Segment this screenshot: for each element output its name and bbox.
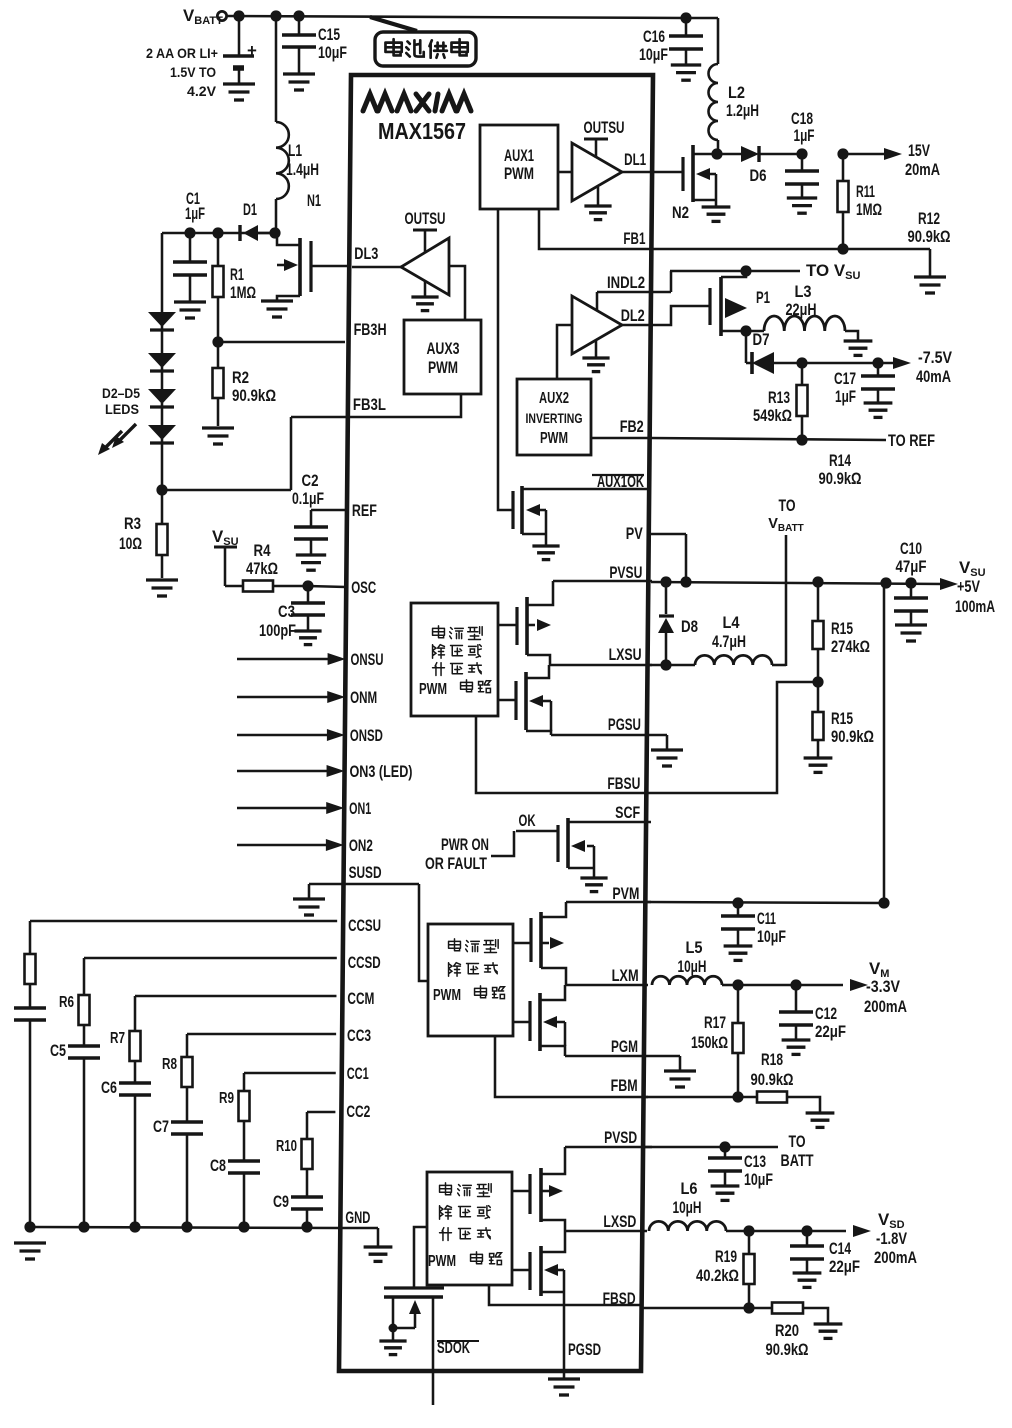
output VM -3.3V (732, 959, 907, 1016)
svg-text:10μF: 10μF (744, 1170, 773, 1189)
transistor SU high-side (498, 581, 553, 665)
svg-text:C2: C2 (302, 471, 319, 490)
svg-text:CCSD: CCSD (348, 954, 381, 972)
wire P1 to D7 (745, 331, 748, 363)
wire GND bus (30, 1227, 342, 1228)
svg-text:R2: R2 (232, 368, 249, 387)
wire PVSU internal (553, 580, 652, 583)
svg-text:L6: L6 (681, 1179, 698, 1198)
wire PV external (648, 534, 686, 582)
svg-text:274kΩ: 274kΩ (831, 638, 870, 656)
resistor R17 150k (691, 985, 744, 1097)
svg-text:100pF: 100pF (259, 621, 296, 640)
ground battery (223, 84, 255, 100)
svg-text:PGSD: PGSD (568, 1341, 601, 1359)
ground PGM (664, 1071, 696, 1087)
block SD buck-boost PWM (Chinese) (427, 1172, 512, 1285)
transistor SCF open-drain (558, 818, 651, 877)
svg-text:CC1: CC1 (347, 1065, 369, 1083)
svg-text:OUTSU: OUTSU (584, 119, 625, 137)
svg-text:N1: N1 (307, 191, 321, 210)
svg-text:R6: R6 (59, 994, 74, 1011)
resistor R13 549k (753, 357, 808, 440)
wire PGM to ground (565, 1056, 680, 1070)
svg-text:C15: C15 (318, 25, 340, 44)
svg-text:PV: PV (626, 525, 643, 543)
svg-text:ON2: ON2 (349, 837, 373, 855)
terminal V_BATT (183, 6, 227, 27)
svg-text:R13: R13 (768, 388, 790, 407)
ground GND pin (364, 1247, 393, 1261)
svg-text:1MΩ: 1MΩ (230, 283, 256, 302)
pin labels right side (603, 151, 647, 1308)
svg-text:2 AA OR LI+: 2 AA OR LI+ (146, 45, 218, 61)
svg-text:SUSD: SUSD (349, 864, 382, 882)
svg-text:20mA: 20mA (905, 160, 940, 179)
svg-text:47kΩ: 47kΩ (246, 559, 278, 578)
transistor SD high-side (512, 1147, 565, 1231)
svg-text:R4: R4 (254, 541, 271, 560)
svg-text:R12: R12 (918, 209, 940, 228)
transistor M high-side (513, 902, 566, 985)
svg-text:PWM: PWM (419, 681, 447, 698)
inductor L5 10uH (652, 938, 738, 985)
resistor R2 90.9k (213, 342, 277, 426)
svg-text:AUX1: AUX1 (504, 147, 534, 165)
svg-text:MAX1567: MAX1567 (378, 118, 466, 144)
svg-text:C8: C8 (210, 1157, 226, 1175)
wire FB2 TO REF (650, 431, 935, 450)
svg-text:150kΩ: 150kΩ (691, 1034, 728, 1052)
svg-text:R3: R3 (124, 514, 141, 533)
ground PGSU (651, 750, 683, 766)
node FBSU divider dot (812, 676, 823, 687)
svg-text:R15: R15 (831, 709, 853, 728)
capacitor C10 47uF (894, 539, 928, 624)
wire PVM to VSU link (883, 583, 886, 903)
svg-text:CCM: CCM (347, 990, 374, 1008)
resistor R16 90.9k (second R15) (813, 682, 875, 757)
svg-text:C7: C7 (153, 1118, 169, 1136)
diode D6 (717, 146, 802, 185)
svg-text:BATT: BATT (781, 1152, 814, 1170)
svg-text:90.9kΩ: 90.9kΩ (766, 1341, 809, 1359)
inductor L2 1.2uH (709, 64, 760, 154)
svg-text:C9: C9 (273, 1193, 289, 1211)
inductor L1 1.4uH (276, 16, 319, 233)
transistor SD low-side (512, 1231, 565, 1296)
svg-text:FB1: FB1 (623, 230, 645, 248)
svg-text:15V: 15V (908, 141, 931, 160)
wire input ON1 arrow (237, 802, 344, 814)
svg-text:FB3H: FB3H (354, 321, 387, 339)
ground C2 (296, 555, 326, 570)
svg-text:549kΩ: 549kΩ (753, 407, 792, 425)
resistor R15 274k (813, 582, 871, 682)
wire input ON3 arrow (237, 765, 345, 777)
ground C12 (782, 1040, 811, 1054)
svg-text:4.2V: 4.2V (187, 83, 217, 99)
block AUX1 PWM (480, 125, 558, 209)
svg-text:LEDS: LEDS (105, 401, 139, 417)
ground C1 (174, 302, 206, 318)
svg-text:R19: R19 (715, 1247, 737, 1266)
svg-text:R15: R15 (831, 619, 853, 638)
ground R16 (804, 758, 833, 772)
wire GND pin internal (341, 1228, 378, 1246)
wire FBSD external + node (640, 1302, 772, 1313)
resistor R3 10ohm (119, 490, 168, 578)
label MAXIM logo (363, 94, 471, 111)
capacitor C15 (282, 16, 347, 73)
svg-text:L3: L3 (795, 282, 812, 301)
node V_BATT junction dots (233, 10, 691, 23)
svg-text:+: + (247, 41, 257, 60)
svg-text:AUX2: AUX2 (539, 390, 569, 407)
svg-text:90.9kΩ: 90.9kΩ (232, 386, 276, 405)
svg-text:R11: R11 (856, 182, 875, 201)
block AUX3 PWM (404, 320, 481, 394)
svg-text:C3: C3 (278, 602, 295, 621)
svg-text:R7: R7 (110, 1030, 125, 1047)
wire FBM internal (495, 1036, 648, 1097)
wire SUSD pin + internal run (309, 884, 428, 981)
svg-text:1μF: 1μF (185, 205, 205, 223)
svg-text:C11: C11 (757, 909, 776, 928)
op-amp driver AUX1 (OUTSU) (558, 119, 625, 205)
ground R20 (814, 1324, 843, 1338)
node LX1 dot (711, 148, 722, 159)
svg-text:1.2μH: 1.2μH (726, 101, 759, 120)
pin labels left side (345, 245, 412, 1227)
svg-text:OSC: OSC (351, 579, 376, 597)
diode D7 (746, 330, 802, 374)
block SU buck-boost PWM (Chinese) (411, 603, 498, 716)
wire PGSU to ground (551, 735, 667, 749)
ground GND bus (14, 1243, 46, 1259)
svg-text:C12: C12 (815, 1004, 837, 1023)
svg-text:LXSD: LXSD (603, 1213, 636, 1231)
svg-text:OK: OK (519, 812, 536, 830)
label R12 90.9k (908, 209, 951, 246)
transistor AUX1OK switch (513, 486, 650, 545)
svg-text:90.9kΩ: 90.9kΩ (908, 228, 951, 246)
pin label SDOK with overline (437, 1339, 479, 1357)
wire LXSD internal (565, 1230, 647, 1233)
wire FB3H to R1/R2 node (212, 336, 345, 347)
svg-text:C17: C17 (834, 369, 856, 388)
ground AUX3 driver (411, 297, 438, 311)
svg-text:22μF: 22μF (815, 1022, 846, 1041)
terminal V_SU (212, 527, 239, 586)
wire PVM internal (566, 901, 651, 904)
svg-text:FB3L: FB3L (353, 396, 386, 414)
callout line to battery-supply box (370, 17, 417, 31)
capacitor C14 22uF (790, 1231, 860, 1276)
wire PGSD through bottom edge (563, 1292, 566, 1378)
svg-text:ON3 (LED): ON3 (LED) (350, 763, 413, 781)
output VSD -1.8V (743, 1210, 917, 1267)
diode D1 (240, 200, 275, 241)
network CC2 compensation R/C column (273, 1112, 335, 1233)
diode D8 (catch) (658, 582, 698, 665)
inductor L3 22uH (746, 282, 858, 340)
ground R18 (806, 1113, 835, 1127)
svg-text:R10: R10 (276, 1138, 297, 1155)
svg-text:R20: R20 (775, 1321, 799, 1340)
wire FBSD internal (489, 1285, 642, 1305)
network CCSD compensation R/C column (50, 958, 337, 1233)
svg-text:ONM: ONM (350, 689, 377, 707)
svg-text:FB2: FB2 (620, 418, 644, 436)
svg-text:PGM: PGM (611, 1038, 638, 1056)
capacitor C12 22uF (779, 985, 846, 1041)
capacitor C13 10uF (708, 1147, 773, 1189)
svg-text:1.5V TO: 1.5V TO (170, 64, 216, 80)
label MAX1567 (378, 118, 466, 144)
wire FB1 to R12 ground (651, 243, 930, 276)
svg-text:C14: C14 (829, 1239, 851, 1258)
block M buck PWM (Chinese) (428, 924, 513, 1036)
network CC1 compensation R/C column (210, 1073, 336, 1233)
ground C17 (864, 403, 893, 417)
capacitor C3 100pF (259, 586, 325, 640)
svg-text:-7.5V: -7.5V (918, 348, 953, 367)
node P1 drain dot (740, 325, 751, 336)
ground SDOK (379, 1341, 406, 1355)
wire FB1 internal (539, 209, 652, 249)
svg-text:ONSU: ONSU (351, 651, 384, 669)
label box 电池供电 (battery supply) (375, 32, 476, 66)
transistor N1 (external NMOS) (277, 191, 351, 300)
svg-text:TO: TO (779, 497, 796, 515)
wire input ONM arrow (237, 691, 345, 703)
svg-text:40.2kΩ: 40.2kΩ (696, 1267, 739, 1285)
wire DL2 to P1 gate (651, 306, 710, 325)
label R14 90.9k (819, 451, 862, 488)
svg-text:R1: R1 (230, 265, 244, 284)
ground C15 (283, 74, 315, 90)
transistor SDOK switch (384, 1227, 444, 1405)
svg-text:N2: N2 (672, 203, 689, 222)
capacitor C11 10uF (721, 903, 786, 946)
network CCSU compensation R/C column (14, 921, 337, 1233)
svg-text:200mA: 200mA (874, 1248, 917, 1267)
svg-text:10μH: 10μH (678, 957, 707, 976)
svg-text:22μH: 22μH (786, 300, 817, 319)
svg-text:40mA: 40mA (916, 367, 951, 386)
wire LXSU external + inductor L4 4.7uH (648, 613, 786, 665)
svg-text:INDL2: INDL2 (607, 274, 645, 292)
svg-text:PVSD: PVSD (604, 1129, 637, 1147)
svg-text:PWM: PWM (428, 359, 458, 377)
wire FB3L internal (345, 394, 461, 417)
svg-text:D7: D7 (753, 330, 770, 349)
capacitor C16 10uF (639, 18, 703, 64)
network CCM compensation R/C column (101, 996, 336, 1233)
svg-text:CC2: CC2 (346, 1103, 370, 1121)
svg-text:PWM: PWM (504, 165, 534, 183)
ground R2 (202, 428, 234, 444)
resistor R19 40.2k (696, 1231, 755, 1308)
label VSU output (955, 558, 995, 616)
svg-text:AUX3: AUX3 (427, 340, 460, 358)
svg-text:L4: L4 (723, 613, 741, 632)
op-amp driver AUX3 (OUTSU, DL3) (352, 210, 465, 320)
inductor L6 10uH (649, 1179, 749, 1231)
svg-text:22μF: 22μF (829, 1257, 860, 1276)
pin label AUX1OK with overline (592, 473, 644, 491)
wire OSC pin (302, 580, 346, 591)
svg-text:0.1μF: 0.1μF (292, 490, 324, 508)
label PWR ON OR FAULT (425, 831, 514, 873)
svg-text:DL3: DL3 (354, 245, 378, 263)
svg-text:R8: R8 (162, 1056, 177, 1073)
node LXSU dot (660, 659, 671, 670)
pin label PGSD (568, 1341, 601, 1359)
svg-text:10μF: 10μF (757, 927, 786, 946)
svg-text:C13: C13 (744, 1152, 766, 1171)
svg-text:D6: D6 (750, 166, 767, 185)
svg-text:PVSU: PVSU (609, 564, 642, 582)
wire LED bottom node to FB3L (156, 417, 345, 496)
svg-text:200mA: 200mA (864, 997, 907, 1016)
ground C3 (294, 631, 321, 645)
wire input ON2 arrow (237, 839, 344, 851)
svg-text:R18: R18 (761, 1050, 783, 1069)
svg-text:SCF: SCF (615, 804, 640, 822)
svg-text:1.4μH: 1.4μH (286, 160, 319, 179)
resistor R11 1M (837, 148, 882, 249)
svg-text:CC3: CC3 (347, 1027, 371, 1045)
ground C13 (711, 1186, 740, 1200)
transistor P1 (external PMOS) (710, 271, 770, 336)
svg-text:TO: TO (789, 1133, 806, 1151)
ground SCF (580, 878, 607, 892)
wire FB2 internal (591, 437, 651, 440)
svg-text:P1: P1 (756, 288, 770, 307)
svg-text:FBM: FBM (611, 1077, 638, 1095)
ground AUX1 driver (584, 206, 611, 220)
capacitor C1 1uF (173, 190, 207, 301)
svg-text:R17: R17 (704, 1013, 726, 1032)
ground C11 (724, 946, 753, 960)
capacitor C17 1uF (834, 357, 895, 406)
wire PVSD internal (565, 1146, 652, 1149)
svg-text:PWR ON: PWR ON (441, 836, 489, 854)
label OK node (516, 812, 558, 831)
capacitor C18 1uF (785, 109, 819, 197)
wire FBSU internal (476, 716, 648, 793)
wire TO VSU node (670, 261, 860, 282)
wire node A (C1/D1/L1 node) (162, 232, 276, 235)
resistor R1 1Mohm (213, 233, 257, 342)
svg-text:PGSU: PGSU (608, 716, 641, 734)
block AUX2 INVERTING PWM (517, 379, 591, 455)
resistor R18 90.9k (751, 1050, 821, 1112)
svg-text:90.9kΩ: 90.9kΩ (819, 470, 862, 488)
wire PVM external (645, 897, 890, 908)
svg-text:R14: R14 (829, 451, 851, 470)
LED string D2-D5 (102, 233, 176, 490)
svg-text:ON1: ON1 (349, 800, 371, 818)
ground R3 (146, 580, 178, 596)
svg-text:CCSU: CCSU (348, 917, 381, 935)
svg-text:C10: C10 (900, 539, 922, 558)
ground N1 (261, 301, 293, 317)
output 15V 20mA (843, 141, 940, 179)
svg-text:D1: D1 (243, 200, 257, 219)
svg-text:-3.3V: -3.3V (866, 977, 901, 996)
battery B1 2AA-or-Li cell (146, 16, 257, 99)
capacitor C2 0.1uF (292, 471, 328, 554)
svg-text:1μF: 1μF (835, 387, 856, 406)
wire DL1 output (622, 171, 653, 174)
svg-text:47μF: 47μF (896, 557, 927, 576)
svg-text:10Ω: 10Ω (119, 534, 142, 553)
wire LXSU internal (550, 664, 652, 667)
svg-text:INVERTING: INVERTING (526, 411, 583, 426)
svg-text:REF: REF (352, 502, 377, 520)
transistor N2 (external NMOS) (653, 145, 717, 222)
network CC3 compensation R/C column (153, 1034, 336, 1233)
ground C16 (671, 65, 701, 80)
svg-text:PWM: PWM (433, 987, 461, 1004)
wire FBM external + node (645, 1091, 757, 1102)
svg-text:PWM: PWM (428, 1253, 456, 1270)
output -7.5V 40mA (802, 348, 953, 386)
ground C18 (787, 198, 817, 213)
svg-text:ONSD: ONSD (350, 727, 383, 745)
resistor R20 90.9k (766, 1303, 829, 1360)
svg-text:LXSU: LXSU (609, 646, 642, 664)
wire PVSD external (641, 1133, 814, 1170)
wire FBSU external (648, 682, 818, 793)
svg-text:PWM: PWM (540, 430, 568, 447)
svg-text:1μF: 1μF (794, 126, 815, 145)
ground C10 (895, 625, 927, 641)
transistor SU low-side (498, 665, 551, 735)
IC U1 MAX1567 outline (339, 75, 653, 1371)
svg-text:DL1: DL1 (624, 151, 646, 169)
wire AUX1 to AUX1OK gate (498, 209, 513, 510)
node dots C1/R1/L1 (184, 227, 280, 238)
svg-text:FBSU: FBSU (607, 775, 640, 793)
wire input ONSU arrow (237, 653, 346, 665)
svg-text:-1.8V: -1.8V (876, 1229, 908, 1248)
op-amp driver AUX2 (DL2) (557, 292, 651, 379)
svg-text:GND: GND (345, 1209, 370, 1227)
ground L3 (844, 341, 873, 355)
svg-text:L5: L5 (686, 938, 703, 957)
svg-text:R9: R9 (219, 1090, 234, 1107)
svg-text:PVM: PVM (612, 885, 639, 903)
svg-text:90.9kΩ: 90.9kΩ (751, 1071, 794, 1089)
wire TO VBATT from L4 (768, 497, 804, 666)
ground C14 (793, 1273, 822, 1287)
wire INDL2 external (651, 271, 671, 292)
svg-text:OUTSU: OUTSU (405, 210, 446, 228)
svg-text:10μH: 10μH (673, 1198, 702, 1217)
wire REF pin (311, 509, 346, 512)
svg-text:1MΩ: 1MΩ (856, 200, 882, 219)
svg-text:C16: C16 (643, 27, 665, 46)
svg-text:D2–D5: D2–D5 (102, 385, 140, 401)
ground R12 (914, 277, 946, 293)
ground N2 (702, 207, 731, 221)
svg-text:10μF: 10μF (318, 43, 347, 62)
svg-text:DL2: DL2 (621, 307, 645, 325)
